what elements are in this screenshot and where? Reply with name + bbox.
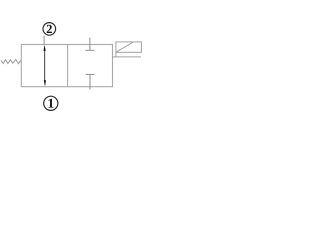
node 2 label circle [43,23,56,36]
valve body envelope (two position boxes) [21,45,112,87]
solenoid base line to valve body [112,56,141,58]
position divider line [67,45,69,87]
blocked port T (bottom, right box) [86,74,95,89]
port 2 connection stub [43,36,45,45]
node 1 label circle [44,96,58,110]
blocked port T (top, right box) [85,38,94,51]
solenoid armature diagonal [116,42,133,52]
spring [1,60,21,64]
solenoid coil box [116,42,141,52]
flow path arrow (double-headed) [44,45,47,87]
solenoid left edge extension [115,52,117,57]
